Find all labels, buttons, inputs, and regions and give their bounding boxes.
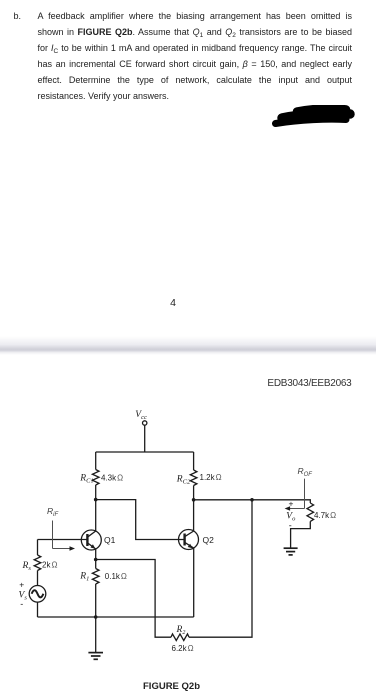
svg-text:RiF: RiF (47, 506, 58, 518)
wire Q2 collector (193, 500, 195, 531)
transistor Q2 (179, 530, 199, 550)
wire ground stem (95, 617, 97, 652)
Vcc terminal (143, 421, 147, 452)
svg-text:RC2: RC2 (176, 475, 191, 486)
wire RC1 to node A (95, 485, 97, 500)
svg-text:6.2kΩ: 6.2kΩ (172, 644, 194, 653)
node A (Q1 collector) (94, 498, 98, 502)
wire top rail (96, 451, 194, 453)
wire Q1 emitter (95, 549, 97, 559)
resistor R2 6.2k (171, 634, 189, 641)
wire Rs to Vs (37, 571, 39, 586)
label Vs with polarity (19, 580, 28, 610)
wire Q2 emitter (193, 548, 195, 617)
svg-text:+: + (289, 499, 294, 509)
wire left branch upper (95, 452, 97, 470)
svg-text:-: - (20, 599, 23, 609)
svg-text:RC1: RC1 (79, 474, 93, 485)
svg-text:2kΩ: 2kΩ (42, 561, 57, 570)
svg-text:Q1: Q1 (104, 535, 116, 545)
resistor Rs (34, 555, 41, 571)
wire Q1 base (38, 539, 88, 541)
svg-text:R1: R1 (79, 572, 89, 583)
source Vs (29, 586, 46, 603)
wire load to ground (291, 521, 311, 547)
svg-text:-: - (289, 520, 292, 530)
ground (right) (284, 548, 298, 555)
resistor R1 (92, 569, 99, 585)
ground (left) (88, 653, 103, 660)
node C (ground rail junction) (94, 615, 98, 619)
svg-text:4.3kΩ: 4.3kΩ (101, 474, 123, 483)
svg-text:R2: R2 (176, 625, 186, 636)
wire node A to Q2 base (96, 500, 185, 540)
svg-text:1.2kΩ: 1.2kΩ (200, 473, 222, 482)
wire node B to R1 (95, 560, 97, 569)
svg-text:4.7kΩ: 4.7kΩ (314, 511, 336, 520)
wire output to load (252, 500, 310, 503)
node E (output node) (250, 498, 254, 502)
resistor RC2 (190, 470, 197, 486)
wire feedback R2 left leg (96, 560, 171, 638)
annotation RiF arrow (53, 521, 76, 551)
wire ground rail (38, 616, 194, 618)
wire R1 to ground rail (95, 584, 97, 617)
wire output (194, 499, 252, 501)
wire RC2 bottom (193, 486, 195, 500)
node D (Q2 collector) (192, 498, 196, 502)
svg-text:ROF: ROF (298, 466, 313, 478)
svg-text:Vcc: Vcc (135, 410, 147, 421)
svg-text:Rs: Rs (22, 561, 32, 572)
wire Vs branch top (37, 540, 39, 556)
resistor RL 4.7k (307, 503, 314, 521)
redaction scribble (276, 108, 351, 123)
wire feedback R2 right leg (189, 500, 252, 637)
node B (Q1 emitter) (94, 558, 98, 562)
annotation ROF arrow (285, 479, 305, 511)
label Vo with polarity (286, 499, 296, 531)
wire Vs to ground rail (37, 602, 39, 617)
wire RC2 top (193, 452, 195, 470)
transistor Q1 (81, 530, 101, 550)
resistor RC1 (92, 470, 99, 486)
svg-text:+: + (19, 580, 24, 590)
svg-text:0.1kΩ: 0.1kΩ (105, 572, 127, 581)
wire Q1 collector (95, 500, 97, 532)
svg-text:Q2: Q2 (203, 535, 215, 545)
